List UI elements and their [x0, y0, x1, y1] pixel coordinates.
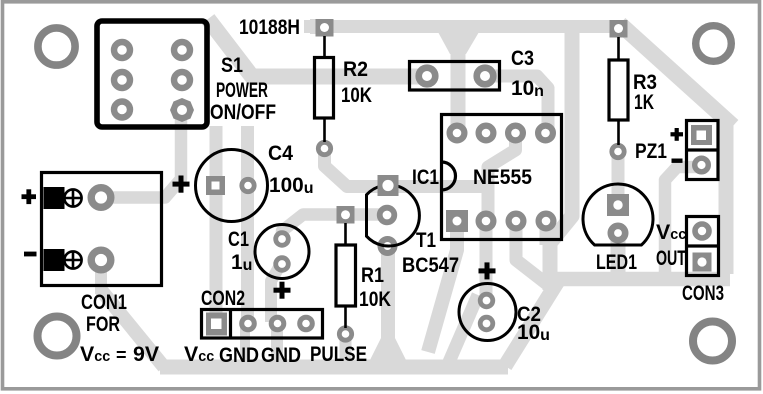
capacitor C1	[255, 225, 309, 279]
wire R1 bottom pad to band	[340, 334, 352, 364]
wire S1 to C3 left pad	[208, 19, 427, 77]
pads CON3	[695, 224, 709, 238]
svg-text:C3: C3	[511, 46, 534, 70]
svg-text:BC547: BC547	[402, 253, 459, 277]
pads C4	[206, 176, 225, 195]
pad R3 top square	[610, 20, 628, 38]
capacitor C2	[459, 284, 516, 341]
svg-text:CON2: CON2	[201, 286, 245, 310]
wire CON1 minus stub	[95, 257, 107, 294]
mounting hole top-right	[696, 26, 732, 62]
pad T1 collector square	[378, 175, 399, 196]
wire R3 bottom to LED anode	[612, 152, 625, 203]
label CON1 minus	[24, 252, 37, 257]
switch S1 box	[97, 21, 207, 127]
svg-text:OUT: OUT	[656, 246, 686, 270]
svg-text:1K: 1K	[634, 90, 654, 114]
capacitor C4	[196, 150, 268, 222]
wire rail to NE555 pin at x458	[451, 30, 466, 133]
wire CON2 pin2 stub to band	[240, 324, 250, 362]
resistor R1	[344, 223, 347, 328]
pads NE555 bottom row	[446, 210, 468, 232]
svg-text:FOR: FOR	[86, 312, 120, 336]
connector PZ1 box	[687, 121, 719, 180]
svg-text:IC1: IC1	[412, 165, 439, 189]
svg-text:10188H: 10188H	[239, 15, 300, 39]
IC1 notch	[442, 162, 456, 190]
label PZ1 plus	[671, 128, 684, 141]
wire C1 minus to CON2 pin3	[271, 262, 282, 322]
label C1 plus	[274, 282, 291, 299]
wire T1 emitter to ground band	[381, 244, 395, 360]
IC IC1 NE555 box	[442, 115, 562, 240]
svg-text:C1: C1	[228, 227, 249, 251]
svg-text:10K: 10K	[359, 287, 391, 311]
wire right side vertical along PZ1/CON3	[719, 120, 734, 274]
pad R2 bottom	[318, 142, 330, 154]
svg-text:R1: R1	[361, 263, 384, 287]
CON1 plus terminal	[44, 188, 64, 209]
wire S1 pad to CON1 plus	[101, 110, 181, 198]
pads LED1	[611, 226, 625, 240]
LED LED1	[583, 184, 653, 245]
S1 pads	[114, 42, 190, 118]
pad R1 bottom	[339, 328, 351, 340]
wire Vcc vertical S1 to CON2 pin1 through C4	[210, 126, 223, 324]
wire NE555 pin1 diagonal to ground	[428, 222, 457, 352]
svg-text:R2: R2	[343, 57, 368, 81]
resistor R2	[323, 36, 326, 142]
wire upper band right of LED	[557, 272, 730, 287]
svg-text:T1: T1	[416, 228, 436, 252]
pads NE555 top row	[450, 126, 553, 141]
pads CON1	[91, 188, 111, 208]
wire C1 plus to R1/T1 base node	[282, 215, 388, 241]
svg-text:POWER: POWER	[216, 78, 268, 102]
wire NE555 pin diagonal to band	[516, 221, 552, 288]
connector CON1 box	[42, 173, 162, 286]
mounting hole bottom-left	[38, 317, 77, 356]
pad R3 bottom	[612, 145, 624, 157]
mounting hole top-left	[38, 28, 75, 65]
wire rail branch down NE555 right side	[550, 30, 572, 290]
wire LED cathode to band	[611, 232, 626, 276]
svg-text:C4: C4	[268, 141, 293, 165]
pads T1	[380, 208, 395, 223]
svg-text:PZ1: PZ1	[635, 139, 667, 163]
wire CON2 pin3 stub to band	[271, 324, 283, 362]
pad R1 top square	[337, 206, 355, 224]
svg-text:NE555: NE555	[473, 165, 532, 189]
wire NE555 pin6 to pin2 internal	[488, 133, 516, 221]
wire NE555 pin to C2 plus	[480, 221, 493, 301]
S1 pad 6 octagon	[170, 98, 194, 122]
svg-text:GND: GND	[219, 343, 259, 367]
pad R2 top square	[316, 19, 334, 37]
label C4 plus	[173, 176, 190, 193]
transistor T1	[367, 185, 420, 246]
connector CON3 box	[687, 217, 719, 276]
wire gray under C2 to band	[449, 295, 478, 362]
svg-text:LED1: LED1	[596, 250, 637, 274]
wire band down-diagonal to bottom rail	[505, 281, 558, 366]
wire top Vcc rail	[304, 20, 618, 33]
wire C3 right pad to NE555 pin	[485, 76, 548, 133]
capacitor C3 box	[410, 62, 500, 91]
svg-text:PULSE: PULSE	[310, 342, 367, 366]
wire bottom ground band	[160, 360, 508, 375]
label CON1 plus	[22, 189, 37, 204]
svg-text:10K: 10K	[341, 83, 372, 107]
svg-text:CON1: CON1	[81, 290, 127, 314]
pads CON2	[206, 313, 227, 336]
svg-text:ON/OFF: ON/OFF	[210, 100, 276, 124]
connector CON2 box	[202, 310, 323, 339]
label PZ1 minus	[672, 159, 683, 163]
wire R2 bottom to T1 collector	[325, 148, 487, 187]
CON1 minus terminal	[44, 250, 64, 271]
wire flare at rail junction	[438, 32, 479, 54]
svg-text:CON3: CON3	[682, 281, 724, 305]
resistor R3	[617, 37, 620, 145]
wire PZ1 minus to band	[665, 167, 699, 276]
mounting hole bottom-right	[693, 322, 732, 361]
pads C3	[419, 68, 436, 85]
wire rail flare into R2 pad	[310, 19, 330, 34]
wire rail diagonal to right side	[620, 24, 733, 126]
wire NE555 pin4 stub	[540, 221, 553, 245]
pads C1	[276, 233, 289, 246]
svg-text:S1: S1	[221, 53, 243, 77]
pad LED1 anode square	[607, 194, 629, 216]
wire C4 minus vertical to CON2 pin2	[241, 126, 254, 323]
wire diagonal band to CON1 minus	[101, 290, 164, 367]
label C2 plus	[479, 262, 496, 279]
pads C2	[480, 294, 493, 307]
pads PZ1	[691, 125, 712, 145]
svg-text:GND: GND	[261, 343, 301, 367]
svg-text:Vcc=9V: Vcc=9V	[80, 342, 160, 366]
